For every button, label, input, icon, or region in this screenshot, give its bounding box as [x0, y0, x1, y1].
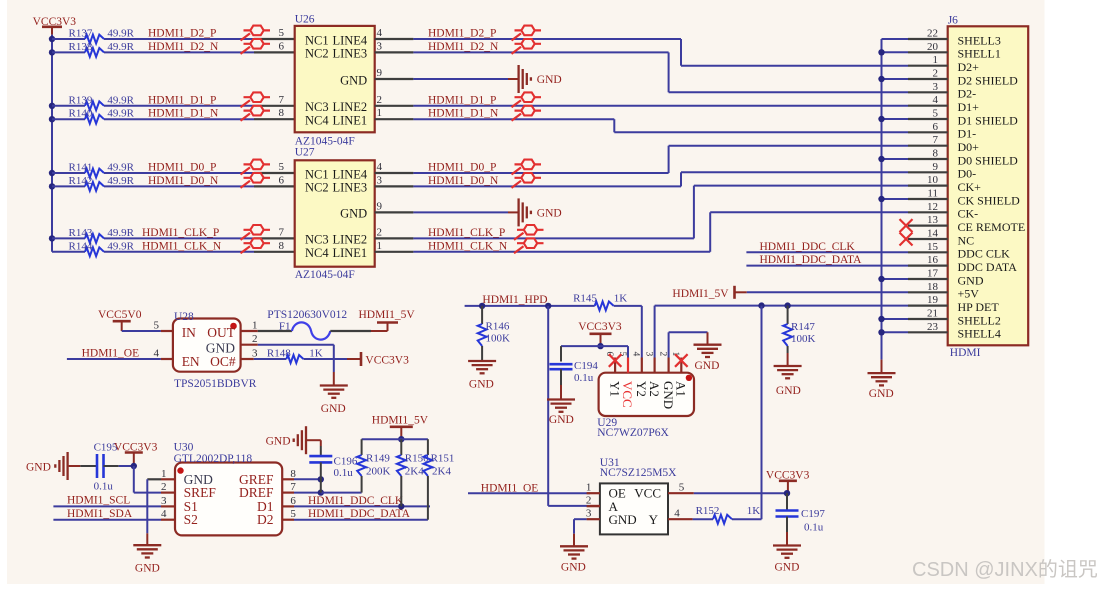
diff pair marker HDMI1_D0_P [241, 167, 251, 174]
svg-text:2: 2 [933, 68, 939, 80]
U31 pin 5 VCC stub [668, 492, 694, 494]
svg-text:4: 4 [631, 352, 641, 357]
wire HDMI1_D1_P U26.2 to J6.4 [413, 105, 908, 107]
ground GND below U30 [133, 544, 161, 546]
J6 pin 6 D1- [908, 131, 948, 133]
svg-text:GND: GND [561, 561, 586, 573]
svg-text:CE REMOTE: CE REMOTE [958, 220, 1026, 234]
power port VCC3V3 at R148 [347, 358, 361, 360]
svg-text:4: 4 [933, 94, 939, 106]
wire U30 GND pin to ground [147, 478, 161, 480]
diff pair marker HDMI1_CLK_P [241, 233, 251, 240]
svg-text:HDMI1_D2_P: HDMI1_D2_P [148, 28, 216, 40]
svg-text:5: 5 [290, 508, 296, 520]
svg-text:2: 2 [377, 94, 383, 106]
diff pair marker HDMI1_CLK_N [241, 246, 251, 253]
J6 pin 21 SHELL2 [908, 318, 948, 320]
J6 pin 13 CE REMOTE [908, 225, 948, 227]
wire U31 GND pin to ground [574, 518, 587, 520]
wire HDMI1_SDA to U30 S2 [53, 519, 161, 521]
J6 pin 8 D0 SHIELD [908, 158, 948, 160]
svg-text:C197: C197 [801, 508, 825, 520]
svg-text:U26: U26 [295, 14, 315, 26]
svg-text:NC2: NC2 [305, 181, 329, 195]
svg-text:IN: IN [182, 325, 196, 340]
no-connect X at U29 A1 [675, 354, 688, 367]
svg-text:R144: R144 [69, 240, 93, 252]
svg-text:9: 9 [377, 200, 383, 212]
node VCC3V3 junction row R139 [49, 103, 55, 109]
svg-text:HDMI1_D0_P: HDMI1_D0_P [428, 162, 496, 174]
svg-text:NC4: NC4 [305, 114, 329, 128]
svg-text:R138: R138 [69, 41, 93, 53]
resistor R147 100K [787, 306, 789, 324]
svg-text:6: 6 [279, 174, 285, 186]
svg-text:3: 3 [377, 174, 383, 186]
svg-text:R141: R141 [69, 162, 93, 174]
svg-text:AZ1045-04F: AZ1045-04F [295, 269, 355, 281]
svg-text:7: 7 [933, 134, 939, 146]
svg-text:GND: GND [537, 207, 562, 219]
resistor R146 100K [481, 306, 483, 324]
svg-text:J6: J6 [948, 15, 958, 27]
svg-text:1K: 1K [747, 505, 761, 517]
J6 pin 14 NC [908, 238, 948, 240]
svg-text:6: 6 [279, 40, 285, 52]
svg-text:R140: R140 [69, 108, 93, 120]
resistor R142 49.9R [52, 185, 85, 187]
svg-text:HDMI1_D0_N: HDMI1_D0_N [428, 175, 499, 187]
svg-text:R139: R139 [69, 94, 93, 106]
svg-text:Y2: Y2 [634, 381, 649, 397]
svg-text:GND: GND [609, 512, 637, 527]
svg-text:VCC3V3: VCC3V3 [578, 321, 622, 333]
pin stub pin 7 [254, 237, 295, 239]
svg-text:R142: R142 [69, 175, 93, 187]
wire HDMI1_DDC_DATA from U30 D2 [294, 519, 428, 521]
svg-text:HDMI1_DDC_CLK: HDMI1_DDC_CLK [308, 495, 404, 507]
wire R152 up to HP DET [761, 306, 763, 520]
wire HDMI1_CLK_P U27.2 to J6.10 [413, 237, 694, 239]
U30 pin 7 stub right [282, 492, 294, 494]
U29 pin 1 A1 stub [680, 358, 682, 373]
svg-text:R151: R151 [431, 453, 455, 465]
svg-text:2: 2 [377, 226, 383, 238]
wire HDMI1_OE to U28 EN [67, 358, 161, 360]
resistor R139 49.9R [52, 105, 85, 107]
svg-text:3: 3 [586, 508, 592, 520]
U28 pin 2 GND stub [241, 344, 258, 346]
svg-text:TPS2051BDBVR: TPS2051BDBVR [174, 378, 257, 390]
wire bus to J6 shield/gnd pin row y=332.3 [882, 331, 909, 333]
svg-text:DREF: DREF [239, 485, 274, 500]
svg-text:1: 1 [377, 107, 383, 119]
svg-text:VCC3V3: VCC3V3 [365, 354, 409, 366]
J6 pin 16 DDC DATA [908, 265, 948, 267]
svg-text:1: 1 [161, 468, 167, 480]
svg-text:1: 1 [377, 240, 383, 252]
diff pair marker HDMI1_D2_P [241, 33, 251, 40]
svg-text:NC3: NC3 [305, 233, 329, 247]
wire GND to C196 [307, 439, 321, 441]
ground GND for U26 pin 9 [517, 65, 519, 93]
svg-text:LINE2: LINE2 [332, 233, 367, 247]
svg-text:U28: U28 [174, 311, 194, 323]
svg-text:SHELL2: SHELL2 [958, 313, 1001, 327]
diff pair marker HDMI1_D0_N [241, 181, 251, 188]
svg-text:1K: 1K [614, 292, 628, 304]
U27 pin 2 stub [375, 237, 414, 239]
wire HDMI1_D2_N U26.3 to J6.3 [413, 51, 668, 53]
capacitor C194 0.1u [560, 346, 562, 361]
svg-text:LINE4: LINE4 [332, 167, 367, 181]
svg-text:2: 2 [657, 352, 667, 357]
U26 pin 2 stub [375, 105, 414, 107]
J6 pin 3 D2- [908, 91, 948, 93]
svg-text:GND: GND [340, 73, 367, 87]
wire HDMI1_HPD [465, 305, 595, 307]
pin stub pin 6 [254, 51, 295, 53]
svg-text:NC: NC [958, 233, 975, 247]
wire U29 GND pin to ground [668, 332, 670, 357]
svg-text:GND: GND [321, 403, 346, 415]
resistor R149 200K [361, 439, 363, 455]
svg-text:4: 4 [377, 161, 383, 173]
J6 pin 4 D1+ [908, 105, 948, 107]
U26 pin 3 stub [375, 51, 414, 53]
svg-text:SREF: SREF [184, 485, 217, 500]
svg-text:HDMI1_D0_N: HDMI1_D0_N [148, 175, 219, 187]
svg-text:4: 4 [377, 27, 383, 39]
svg-text:3: 3 [933, 81, 939, 93]
svg-text:19: 19 [927, 294, 939, 306]
J6 pin 18 +5V [908, 291, 948, 293]
svg-text:5: 5 [154, 320, 160, 332]
svg-text:200K: 200K [366, 465, 391, 477]
svg-text:HDMI1_CLK_N: HDMI1_CLK_N [428, 240, 508, 252]
svg-text:2: 2 [586, 495, 592, 507]
J6 pin 23 SHELL4 [908, 331, 948, 333]
diff pair marker HDMI1_CLK_N right [514, 246, 524, 253]
J6 pin 15 DDC CLK [908, 251, 948, 253]
node VCC3V3 junction row R137 [49, 36, 55, 42]
J6 pin 19 HP DET [908, 305, 948, 307]
svg-text:5: 5 [933, 108, 939, 120]
J6 pin 9 D0- [908, 171, 948, 173]
U26 pin 1 stub [375, 118, 414, 120]
pin stub pin 6 [254, 185, 295, 187]
svg-text:NC7SZ125M5X: NC7SZ125M5X [600, 467, 677, 479]
pin stub pin 5 [254, 172, 295, 174]
svg-text:D1-: D1- [958, 127, 977, 141]
svg-text:LINE2: LINE2 [332, 100, 367, 114]
svg-text:GND: GND [537, 74, 562, 86]
wire VCC5V0 to U28 IN [122, 330, 161, 332]
svg-text:VCC: VCC [620, 381, 635, 408]
U31 pin 3 stub [587, 518, 600, 520]
wire U26 pin9 GND [413, 78, 508, 80]
svg-text:R137: R137 [69, 28, 93, 40]
svg-text:AZ1045-04F: AZ1045-04F [295, 135, 355, 147]
svg-text:+5V: +5V [958, 287, 980, 301]
svg-text:HDMI1_DDC_DATA: HDMI1_DDC_DATA [308, 508, 411, 520]
svg-text:D0 SHIELD: D0 SHIELD [958, 153, 1019, 167]
resistor R143 49.9R [52, 237, 85, 239]
diff pair marker HDMI1_D1_P right [512, 100, 522, 107]
svg-text:0.1u: 0.1u [804, 522, 824, 534]
svg-text:49.9R: 49.9R [107, 28, 134, 40]
svg-text:OC#: OC# [210, 354, 236, 369]
svg-text:49.9R: 49.9R [107, 175, 134, 187]
svg-text:VCC5V0: VCC5V0 [98, 309, 142, 321]
resistor R137 49.9R [52, 38, 85, 40]
svg-text:HDMI: HDMI [950, 347, 981, 359]
svg-text:16: 16 [927, 254, 939, 266]
wire U30 GREF [294, 478, 321, 480]
svg-text:R145: R145 [573, 292, 597, 304]
wire J6 pin 16 DDC DATA [746, 265, 908, 267]
svg-text:HDMI1_D2_N: HDMI1_D2_N [148, 41, 219, 53]
U28 pin 1 OUT stub [241, 330, 258, 332]
J6 pin 11 CK SHIELD [908, 198, 948, 200]
wire bus to J6 shield/gnd pin row y=319 [882, 318, 909, 320]
svg-text:HDMI1_D0_P: HDMI1_D0_P [148, 162, 216, 174]
svg-text:HDMI1_5V: HDMI1_5V [372, 415, 429, 427]
svg-text:GND: GND [469, 379, 494, 391]
U29 pin 6 Y1 stub [614, 358, 616, 373]
svg-text:LINE4: LINE4 [332, 33, 367, 47]
svg-text:8: 8 [279, 107, 285, 119]
node VCC3V3 junction row R143 [49, 235, 55, 241]
J6 pin 1 D2+ [908, 65, 948, 67]
diff pair marker HDMI1_D1_N [241, 114, 251, 121]
svg-text:HP DET: HP DET [958, 300, 1000, 314]
J6 pin 2 D2 SHIELD [908, 78, 948, 80]
resistor R140 49.9R [52, 118, 85, 120]
wire HDMI1_D0_P U27.4 to J6.7 [413, 172, 668, 174]
U30 pin 3 stub [161, 505, 175, 507]
svg-text:0.1u: 0.1u [334, 467, 354, 479]
svg-text:HDMI1_CLK_P: HDMI1_CLK_P [142, 227, 219, 239]
svg-text:CSDN @JINX的诅咒: CSDN @JINX的诅咒 [912, 558, 1098, 581]
svg-text:GND: GND [340, 207, 367, 221]
svg-text:100K: 100K [791, 333, 816, 345]
ground GND for U27 pin 9 [517, 198, 519, 226]
svg-text:VCC: VCC [634, 486, 661, 501]
svg-text:R149: R149 [366, 453, 390, 465]
svg-text:LINE1: LINE1 [332, 246, 367, 260]
svg-text:D2+: D2+ [958, 60, 980, 74]
svg-text:HDMI1_OE: HDMI1_OE [82, 348, 140, 360]
diff pair marker HDMI1_D1_P [241, 100, 251, 107]
svg-text:DDC DATA: DDC DATA [958, 260, 1018, 274]
svg-text:R147: R147 [791, 321, 815, 333]
U27 pin 4 stub [375, 172, 414, 174]
svg-text:22: 22 [927, 28, 938, 40]
ground GND bus symbol [868, 372, 896, 374]
svg-text:GND: GND [958, 273, 984, 287]
svg-text:CK+: CK+ [958, 180, 982, 194]
J6 pin 17 GND [908, 278, 948, 280]
J6 pin 20 SHELL1 [908, 51, 948, 53]
svg-text:0.1u: 0.1u [94, 481, 114, 493]
resistor R141 49.9R [52, 172, 85, 174]
svg-text:49.9R: 49.9R [107, 94, 134, 106]
node VCC3V3 junction row R140 [49, 116, 55, 122]
J6 pin 22 SHELL3 [908, 38, 948, 40]
diff pair marker HDMI1_D2_P right [512, 33, 522, 40]
svg-text:D2 SHIELD: D2 SHIELD [958, 73, 1019, 87]
svg-text:6: 6 [933, 121, 939, 133]
node VCC3V3 C197 junction [784, 490, 790, 496]
svg-text:9: 9 [933, 161, 939, 173]
svg-text:HDMI1_5V: HDMI1_5V [359, 309, 416, 321]
svg-text:4: 4 [674, 507, 680, 519]
svg-text:5: 5 [279, 161, 285, 173]
svg-text:9: 9 [377, 67, 383, 79]
svg-text:NC1: NC1 [305, 33, 329, 47]
U30 pin 4 stub [161, 519, 175, 521]
svg-text:D0-: D0- [958, 167, 977, 181]
U27 pin 1 stub [375, 251, 414, 253]
svg-text:D0+: D0+ [958, 140, 980, 154]
svg-text:Y1: Y1 [607, 381, 622, 397]
svg-text:11: 11 [927, 188, 938, 200]
svg-text:D1+: D1+ [958, 100, 980, 114]
svg-text:CK SHIELD: CK SHIELD [958, 193, 1021, 207]
node HDMI1_5V junction [398, 436, 404, 442]
wire U29 A2 up to HP DET [654, 306, 656, 358]
U30 pin 5 stub right [282, 519, 294, 521]
svg-text:SHELL1: SHELL1 [958, 47, 1001, 61]
U29 pin 3 A2 stub [653, 358, 655, 373]
wire HDMI1_SCL to U30 S1 [53, 505, 161, 507]
wire U30 DREF [294, 492, 321, 494]
svg-text:10: 10 [927, 174, 939, 186]
node VCC3V3 junction row R138 [49, 49, 55, 55]
wire bus to J6 shield/gnd pin row y=159 [882, 158, 909, 160]
wire VCC3V3 to U29 VCC pin [627, 346, 629, 357]
svg-text:C194: C194 [574, 360, 598, 372]
svg-text:14: 14 [927, 228, 939, 240]
svg-text:1: 1 [933, 54, 939, 66]
svg-text:HDMI1_CLK_P: HDMI1_CLK_P [428, 227, 505, 239]
resistor R150 2K4 [400, 439, 402, 455]
svg-text:D2: D2 [257, 512, 274, 527]
svg-text:OUT: OUT [207, 325, 235, 340]
svg-text:LINE3: LINE3 [332, 47, 367, 61]
svg-text:A2: A2 [647, 381, 662, 397]
svg-text:8: 8 [279, 240, 285, 252]
svg-text:HDMI1_D1_N: HDMI1_D1_N [428, 108, 499, 120]
node VCC3V3 C194 junction [597, 343, 603, 349]
svg-text:HDMI1_D1_N: HDMI1_D1_N [148, 108, 219, 120]
diff pair marker HDMI1_D1_N right [512, 114, 522, 121]
resistor R144 49.9R [52, 251, 85, 253]
U28 pin 3 OC# stub [241, 358, 254, 360]
pin stub pin 8 [254, 118, 295, 120]
node VCC3V3 junction row R141 [49, 170, 55, 176]
resistor R138 49.9R [52, 51, 85, 53]
svg-text:GND: GND [266, 436, 291, 448]
U27 pin 9 stub [375, 211, 414, 213]
svg-text:21: 21 [927, 308, 938, 320]
svg-text:D2-: D2- [958, 87, 977, 101]
U26 pin 4 stub [375, 38, 414, 40]
no-connect X at J6 pin 13 [900, 219, 913, 232]
wire bus to J6 shield/gnd pin row y=279 [882, 278, 909, 280]
no-connect X at U29 Y1 [609, 354, 622, 367]
svg-text:GND: GND [135, 562, 160, 574]
svg-text:2K4: 2K4 [432, 465, 451, 477]
svg-text:1K: 1K [309, 348, 323, 360]
svg-text:DDC CLK: DDC CLK [958, 247, 1011, 261]
svg-text:4: 4 [154, 348, 160, 360]
svg-text:NC7WZ07P6X: NC7WZ07P6X [597, 427, 669, 439]
svg-text:HDMI1_5V: HDMI1_5V [672, 288, 729, 300]
svg-text:NC1: NC1 [305, 167, 329, 181]
svg-text:3: 3 [643, 352, 653, 357]
J6 pin 7 D0+ [908, 145, 948, 147]
svg-text:HDMI1_HPD: HDMI1_HPD [482, 294, 547, 306]
svg-text:GND: GND [549, 414, 574, 426]
svg-text:LINE3: LINE3 [332, 181, 367, 195]
U29 pin 4 Y2 stub [641, 358, 643, 373]
svg-text:R146: R146 [486, 321, 510, 333]
svg-text:GND: GND [695, 360, 720, 372]
capacitor C195 0.1u [69, 465, 81, 467]
svg-text:5: 5 [679, 481, 685, 493]
wire bus to J6 shield/gnd pin row y=52.3 [882, 51, 909, 53]
svg-text:SHELL4: SHELL4 [958, 327, 1001, 341]
svg-text:12: 12 [927, 201, 938, 213]
svg-text:C196: C196 [334, 455, 358, 467]
no-connect X at J6 pin 14 [900, 233, 913, 246]
svg-text:R152: R152 [696, 505, 720, 517]
svg-text:49.9R: 49.9R [107, 162, 134, 174]
resistor R145 1K [595, 302, 614, 311]
ground GND below C194 [547, 398, 575, 400]
svg-text:3: 3 [377, 40, 383, 52]
U27 pin 3 stub [375, 185, 414, 187]
wire HDMI1_D0_N U27.3 to J6.9 [413, 185, 681, 187]
svg-text:49.9R: 49.9R [107, 108, 134, 120]
wire HP DET J6 pin 19 segment [655, 305, 908, 307]
svg-text:0.1u: 0.1u [574, 372, 594, 384]
wire bus to J6 shield/gnd pin row y=119 [882, 118, 909, 120]
svg-text:GND: GND [26, 462, 51, 474]
capacitor C197 0.1u [786, 493, 788, 510]
svg-text:1: 1 [586, 482, 592, 494]
svg-text:HDMI1_D1_P: HDMI1_D1_P [148, 94, 216, 106]
svg-text:HDMI1_D2_N: HDMI1_D2_N [428, 41, 499, 53]
svg-text:7: 7 [279, 226, 285, 238]
diff pair marker HDMI1_D0_N right [512, 181, 522, 188]
svg-text:U30: U30 [174, 442, 194, 454]
svg-text:7: 7 [279, 94, 285, 106]
U29 pin 5 VCC stub [627, 358, 629, 373]
svg-text:NC4: NC4 [305, 246, 329, 260]
svg-text:17: 17 [927, 268, 939, 280]
pin stub pin 7 [254, 105, 295, 107]
svg-text:23: 23 [927, 321, 939, 333]
diff pair marker HDMI1_D0_P right [512, 167, 522, 174]
resistor R151 2K4 [427, 439, 429, 455]
U31 pin 4 Y stub [668, 518, 693, 520]
wire bus to J6 shield/gnd pin row y=199 [882, 198, 909, 200]
svg-text:13: 13 [927, 214, 939, 226]
svg-text:HDMI1_SCL: HDMI1_SCL [67, 495, 130, 507]
